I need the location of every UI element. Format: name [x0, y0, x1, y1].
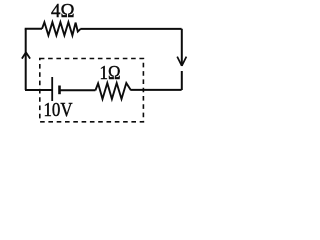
wire: top lead right	[80, 28, 181, 30]
wire: bottom mid segment battery to resistor	[60, 89, 96, 91]
wire: left vertical branch	[25, 29, 27, 90]
wire: top lead left	[25, 28, 42, 30]
battery cell: long thin plate (positive)	[51, 77, 53, 101]
arrow down on right wire	[177, 57, 186, 66]
arrow up on left wire	[22, 52, 30, 58]
svg-text:1Ω: 1Ω	[100, 62, 121, 84]
resistor r=1ohm zigzag	[95, 83, 131, 99]
battery cell: short thick plate (negative)	[58, 86, 61, 95]
dashed box around battery and internal resistance	[40, 59, 144, 122]
resistor R=4ohm zigzag	[42, 22, 81, 35]
wire: bottom right segment	[131, 89, 182, 91]
wire: right vertical branch	[181, 29, 183, 90]
wire: bottom left segment	[25, 89, 52, 91]
svg-text:10V: 10V	[44, 99, 73, 121]
svg-text:4Ω: 4Ω	[51, 0, 75, 22]
